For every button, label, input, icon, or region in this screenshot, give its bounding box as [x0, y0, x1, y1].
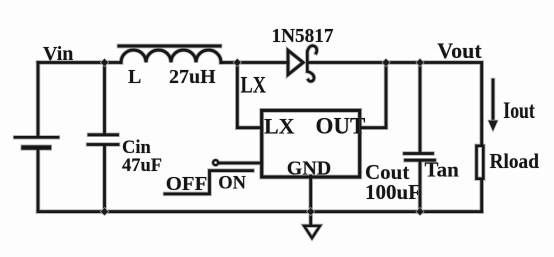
- junction node GND bottom: [307, 208, 314, 215]
- wire halo layer (soft edge emulation): [15, 46, 493, 238]
- Iout arrowhead: [488, 121, 497, 132]
- junction node Cout top: [416, 59, 423, 66]
- svg-text:OFF: OFF: [166, 173, 208, 195]
- wire left drop from Vin corner to battery top: [37, 63, 40, 137]
- ground: [304, 226, 320, 238]
- svg-text:L: L: [128, 66, 141, 88]
- junction node Cout bottom: [416, 208, 423, 215]
- resistor Rload body: [477, 146, 484, 179]
- svg-text:27uH: 27uH: [169, 66, 216, 88]
- battery V1 negative plate (short thick): [24, 145, 50, 149]
- battery V1 positive plate (long): [15, 136, 58, 139]
- wire bottom-right riser to Rload bottom: [480, 180, 483, 212]
- junction node OUT riser: [382, 59, 389, 66]
- svg-text:LX: LX: [241, 73, 267, 98]
- wire Cin bottom branch: [103, 146, 106, 212]
- svg-text:Rload: Rload: [490, 149, 540, 173]
- svg-text:LX: LX: [264, 114, 295, 139]
- OFF/ON control waveform: [165, 171, 253, 194]
- svg-text:ON: ON: [218, 174, 246, 194]
- svg-text:Tan: Tan: [425, 157, 460, 181]
- junction node LX: [234, 59, 241, 66]
- diode 1N5817 schottky cathode bar: [307, 46, 317, 82]
- IC U1 regulator box (pins LX, OUT, GND): [262, 110, 360, 177]
- wire bottom rail: [38, 210, 482, 213]
- svg-text:Iout: Iout: [503, 98, 535, 123]
- Iout arrow line: [492, 80, 495, 121]
- svg-text:Vin: Vin: [43, 43, 73, 65]
- wire top rail left from Vin corner to inductor: [38, 61, 121, 64]
- wire Cout top branch: [419, 63, 422, 153]
- wire LX node drop to IC pin: [237, 63, 261, 128]
- svg-text:1N5817: 1N5817: [272, 25, 334, 47]
- svg-text:GND: GND: [287, 157, 331, 179]
- capacitor Cin plates: [88, 135, 118, 145]
- svg-text:47uF: 47uF: [122, 156, 162, 176]
- switch pole circle: [213, 160, 218, 165]
- svg-text:100uF: 100uF: [365, 180, 421, 204]
- wire inductor to diode anode: [221, 61, 288, 64]
- wire switch to IC shutdown pin: [219, 162, 262, 165]
- capacitor Cout Tan plates: [405, 154, 435, 161]
- wire diode cathode to Vout corner and down to Rload: [308, 63, 482, 145]
- junction node Cin bottom: [101, 208, 108, 215]
- inductor core bar: [119, 45, 220, 48]
- wire Cin top branch: [103, 63, 106, 134]
- inductor L 27uH humps: [121, 50, 221, 63]
- svg-text:Vout: Vout: [437, 38, 482, 63]
- wire OUT pin riser to top rail: [360, 63, 386, 128]
- diode 1N5817 triangle: [288, 50, 303, 74]
- wire battery bottom to bottom rail: [37, 149, 40, 212]
- junction node at Vin/Cin: [101, 59, 108, 66]
- svg-text:Cin: Cin: [122, 138, 152, 158]
- wire Cout bottom branch: [419, 162, 422, 212]
- wire GND pin to ground: [309, 176, 312, 224]
- svg-text:OUT: OUT: [316, 114, 366, 139]
